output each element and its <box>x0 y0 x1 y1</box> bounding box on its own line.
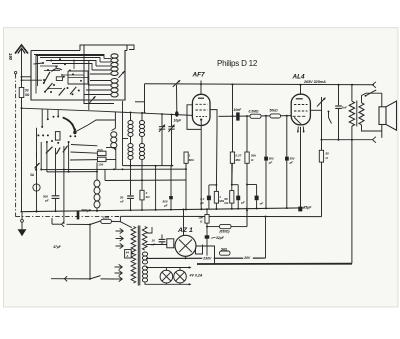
wire drop 247 <box>246 116 248 226</box>
coil choke left <box>94 163 100 212</box>
capacitor 10nF coupling <box>234 108 243 120</box>
resistor 100ohm <box>198 210 209 259</box>
svg-text:50kΩ: 50kΩ <box>270 108 279 112</box>
fuse lamp <box>30 173 40 211</box>
output transformer secondary <box>359 103 364 125</box>
wire lamp bottom line <box>150 283 192 285</box>
capacitor 500uF b <box>285 157 295 165</box>
wire plate supply H1 <box>135 84 374 114</box>
grid stopper bead <box>174 111 183 123</box>
svg-text:(650Ω): (650Ω) <box>220 229 230 233</box>
resistor 64 primary <box>125 250 134 259</box>
oscillator coil L3 <box>111 112 117 150</box>
tube AF7 <box>192 94 210 125</box>
label 190 <box>8 53 13 61</box>
connector hook return <box>373 137 376 143</box>
svg-text:AL4: AL4 <box>292 74 306 81</box>
svg-text:50k: 50k <box>251 154 256 158</box>
svg-text:10µF: 10µF <box>174 119 183 123</box>
svg-text:20V: 20V <box>243 256 251 260</box>
svg-text:32µF: 32µF <box>216 236 225 240</box>
transformer secondary LV <box>142 252 150 284</box>
wire lamp top line <box>146 266 192 268</box>
capacitor bottom 50nF <box>255 185 264 210</box>
wire switch to coils <box>75 120 115 132</box>
svg-text:AF7: AF7 <box>192 72 206 79</box>
rotary wave-band switch <box>37 116 76 144</box>
capacitor 500pF <box>43 148 59 211</box>
speaker <box>379 101 397 130</box>
wire sec top <box>146 227 152 233</box>
svg-text:1: 1 <box>189 154 191 158</box>
ground arrow <box>18 212 27 237</box>
svg-text:0,6A: 0,6A <box>103 215 110 219</box>
svg-text:0.5MΩ: 0.5MΩ <box>249 110 259 114</box>
wire OT primary top <box>351 85 353 101</box>
svg-text:35µF: 35µF <box>303 205 312 209</box>
svg-text:µF: µF <box>199 201 204 205</box>
trimmer below box <box>84 96 114 103</box>
label 4V <box>189 274 203 278</box>
resistor 1500 <box>97 148 106 156</box>
resistor 500 <box>97 157 106 166</box>
label 230V <box>202 256 213 261</box>
resistor 54ohm <box>220 247 231 255</box>
padder trimmer H1 <box>173 80 180 111</box>
label AF7 <box>192 72 206 79</box>
antenna symbol <box>15 45 28 108</box>
wire IF return drop <box>155 165 157 210</box>
wire drop 232 <box>231 85 234 185</box>
wire coupling <box>219 115 293 118</box>
wire link bottom pair1 <box>209 184 217 186</box>
wire speaker return <box>321 139 373 141</box>
svg-text:A: A <box>125 254 128 258</box>
switch contact tone <box>328 111 332 124</box>
wire AF7 anode top <box>200 81 202 95</box>
svg-text:AZ 1: AZ 1 <box>177 227 193 234</box>
node bus dots <box>36 207 302 213</box>
tuner coil L2 <box>111 79 118 98</box>
node antenna-bus junction <box>21 107 23 109</box>
svg-text:200µF: 200µF <box>80 209 92 213</box>
wire AZ1 output <box>196 246 215 264</box>
wire AVC line <box>40 168 186 170</box>
wire OT secondary bottom <box>362 93 382 138</box>
wire vertical through box <box>83 45 85 104</box>
pilot lamp 2 <box>174 268 187 285</box>
svg-text:MΩ: MΩ <box>236 158 241 162</box>
svg-text:MΩ: MΩ <box>189 158 195 162</box>
fuse 0.6A <box>101 215 132 227</box>
svg-text:pF: pF <box>44 198 49 202</box>
capacitor 35uF cathode <box>298 205 312 211</box>
tuning gang capacitors <box>159 113 175 165</box>
wire box to switch stubs <box>41 109 58 128</box>
svg-text:150: 150 <box>98 163 103 167</box>
svg-text:4V 0,2A: 4V 0,2A <box>189 274 203 278</box>
resistor 0.5M <box>249 110 262 119</box>
svg-text:5Ω: 5Ω <box>25 93 30 97</box>
wire link bottom pair3 <box>246 184 257 186</box>
wave-band switch contacts in box <box>34 54 89 96</box>
IF coil secondary <box>139 112 144 180</box>
resistor 50k grid <box>270 108 281 118</box>
output transformer primary <box>349 101 354 126</box>
speaker switch <box>362 90 382 103</box>
tuner coil L1 <box>111 54 118 76</box>
wire mains line <box>146 257 266 259</box>
wire link 1500 <box>70 145 97 161</box>
wire padder link <box>106 101 128 169</box>
svg-text:47µF: 47µF <box>52 245 62 249</box>
primary tap arrows <box>115 228 124 281</box>
wire mains to transformer <box>145 256 147 258</box>
svg-text:54Ω: 54Ω <box>221 247 228 251</box>
wire mains feed line <box>120 216 321 218</box>
wire switch drop a <box>40 142 42 170</box>
label AL4 <box>292 74 306 81</box>
chassis boundary dashed <box>14 71 120 216</box>
wire switch drop d <box>63 146 65 224</box>
svg-text:µF: µF <box>289 160 294 164</box>
IF coil primary <box>128 111 133 165</box>
wire AF7 screen out <box>210 110 217 128</box>
tuner box internal wiring <box>34 55 111 111</box>
capacitor 5nF anode <box>335 85 347 140</box>
transformer secondary HV <box>142 227 147 251</box>
capacitor 10nF AZ1 <box>152 235 166 247</box>
capacitor 500uF cathode <box>163 166 173 210</box>
svg-text:50: 50 <box>326 152 330 156</box>
trimmer capacitor tuner <box>118 71 124 78</box>
wire return line <box>47 171 98 173</box>
transformer primary winding <box>131 227 136 284</box>
output transformer core <box>356 101 358 127</box>
svg-text:nF: nF <box>152 243 156 247</box>
svg-text:Philips D 12: Philips D 12 <box>217 59 258 68</box>
wire pickup line <box>51 225 115 282</box>
wire HV to AZ1 <box>146 244 168 246</box>
chassis line thick <box>197 263 352 265</box>
resistor 650ohm <box>206 209 248 233</box>
svg-text:10nF: 10nF <box>234 108 243 112</box>
svg-text:190: 190 <box>8 53 13 61</box>
svg-text:nF: nF <box>260 202 264 206</box>
resistor 50k cathode <box>245 152 256 163</box>
AL4 heater pins <box>297 127 305 134</box>
wire antenna to box <box>21 76 42 81</box>
resistor 50ohm <box>319 140 329 217</box>
tone control variable <box>317 97 326 140</box>
wire drop 266 <box>265 116 267 209</box>
svg-text:kΩ: kΩ <box>146 195 151 199</box>
resistor antenna series <box>19 88 30 212</box>
label AZ 1 <box>177 227 193 234</box>
node chain dots <box>232 115 288 118</box>
capacitor bottom 50uF <box>236 185 245 210</box>
wire switch drop b <box>46 142 48 172</box>
svg-text:µF: µF <box>240 201 245 205</box>
resistor 0.27M <box>230 152 241 163</box>
pilot lamp 1 <box>160 268 173 285</box>
svg-text:5nF: 5nF <box>342 106 348 110</box>
svg-text:0.27: 0.27 <box>236 154 242 158</box>
wire AL4 cathode <box>300 127 302 209</box>
tube AL4 <box>291 94 310 125</box>
resistor 1M <box>184 152 194 210</box>
wire mains switch <box>52 218 101 227</box>
switch frame left <box>36 128 38 158</box>
capacitor 32uF <box>205 235 225 240</box>
wire AZ1 top <box>183 210 185 236</box>
label 265V 325mA <box>303 80 326 84</box>
svg-text:3A: 3A <box>30 173 35 177</box>
tuner coil box outline <box>31 45 134 100</box>
node H1 dots <box>232 84 354 86</box>
switch blades <box>46 146 68 155</box>
wire fuse branch <box>35 152 40 212</box>
resistor bottom 1M <box>214 191 224 209</box>
wire ground bus <box>20 208 304 212</box>
label 20V <box>243 255 253 260</box>
capacitor 50nF cathode <box>120 166 134 211</box>
transformer core <box>138 226 140 286</box>
wire cathode line <box>105 170 186 182</box>
svg-text:nF: nF <box>120 199 124 203</box>
wire AL4 screen link <box>310 109 321 111</box>
wire switch drop e <box>68 142 70 172</box>
grid frame AF7 <box>187 105 201 130</box>
wire drop 287 <box>286 116 288 209</box>
tube AZ1 <box>167 235 196 256</box>
svg-text:µF: µF <box>268 160 273 164</box>
wire OT primary bottom <box>351 126 353 263</box>
resistor 2k cathode <box>140 180 150 210</box>
resistor bottom 68k <box>224 163 234 209</box>
wire heater drop <box>265 217 267 259</box>
wire grid bus <box>22 108 193 115</box>
wire AZ1 bottom <box>185 256 187 258</box>
wire AL4 anode <box>300 85 302 94</box>
wire link bottom pair2 <box>231 184 238 186</box>
svg-text:230V: 230V <box>202 256 212 260</box>
svg-text:50: 50 <box>25 89 29 93</box>
label 47uF <box>52 245 62 249</box>
connector hook H1 <box>373 82 376 88</box>
capacitor 0.1uF <box>199 185 211 210</box>
wire AF7 cathode down <box>200 120 202 210</box>
title Philips D 12 <box>217 59 258 68</box>
wire screen drop <box>215 128 218 191</box>
capacitor 200uF on bus <box>77 209 92 220</box>
wire IF link <box>123 165 174 167</box>
mains plug <box>196 245 203 255</box>
svg-text:265V 325mA: 265V 325mA <box>303 80 326 84</box>
capacitor 500uF a <box>264 157 274 165</box>
svg-text:µF: µF <box>163 203 168 207</box>
